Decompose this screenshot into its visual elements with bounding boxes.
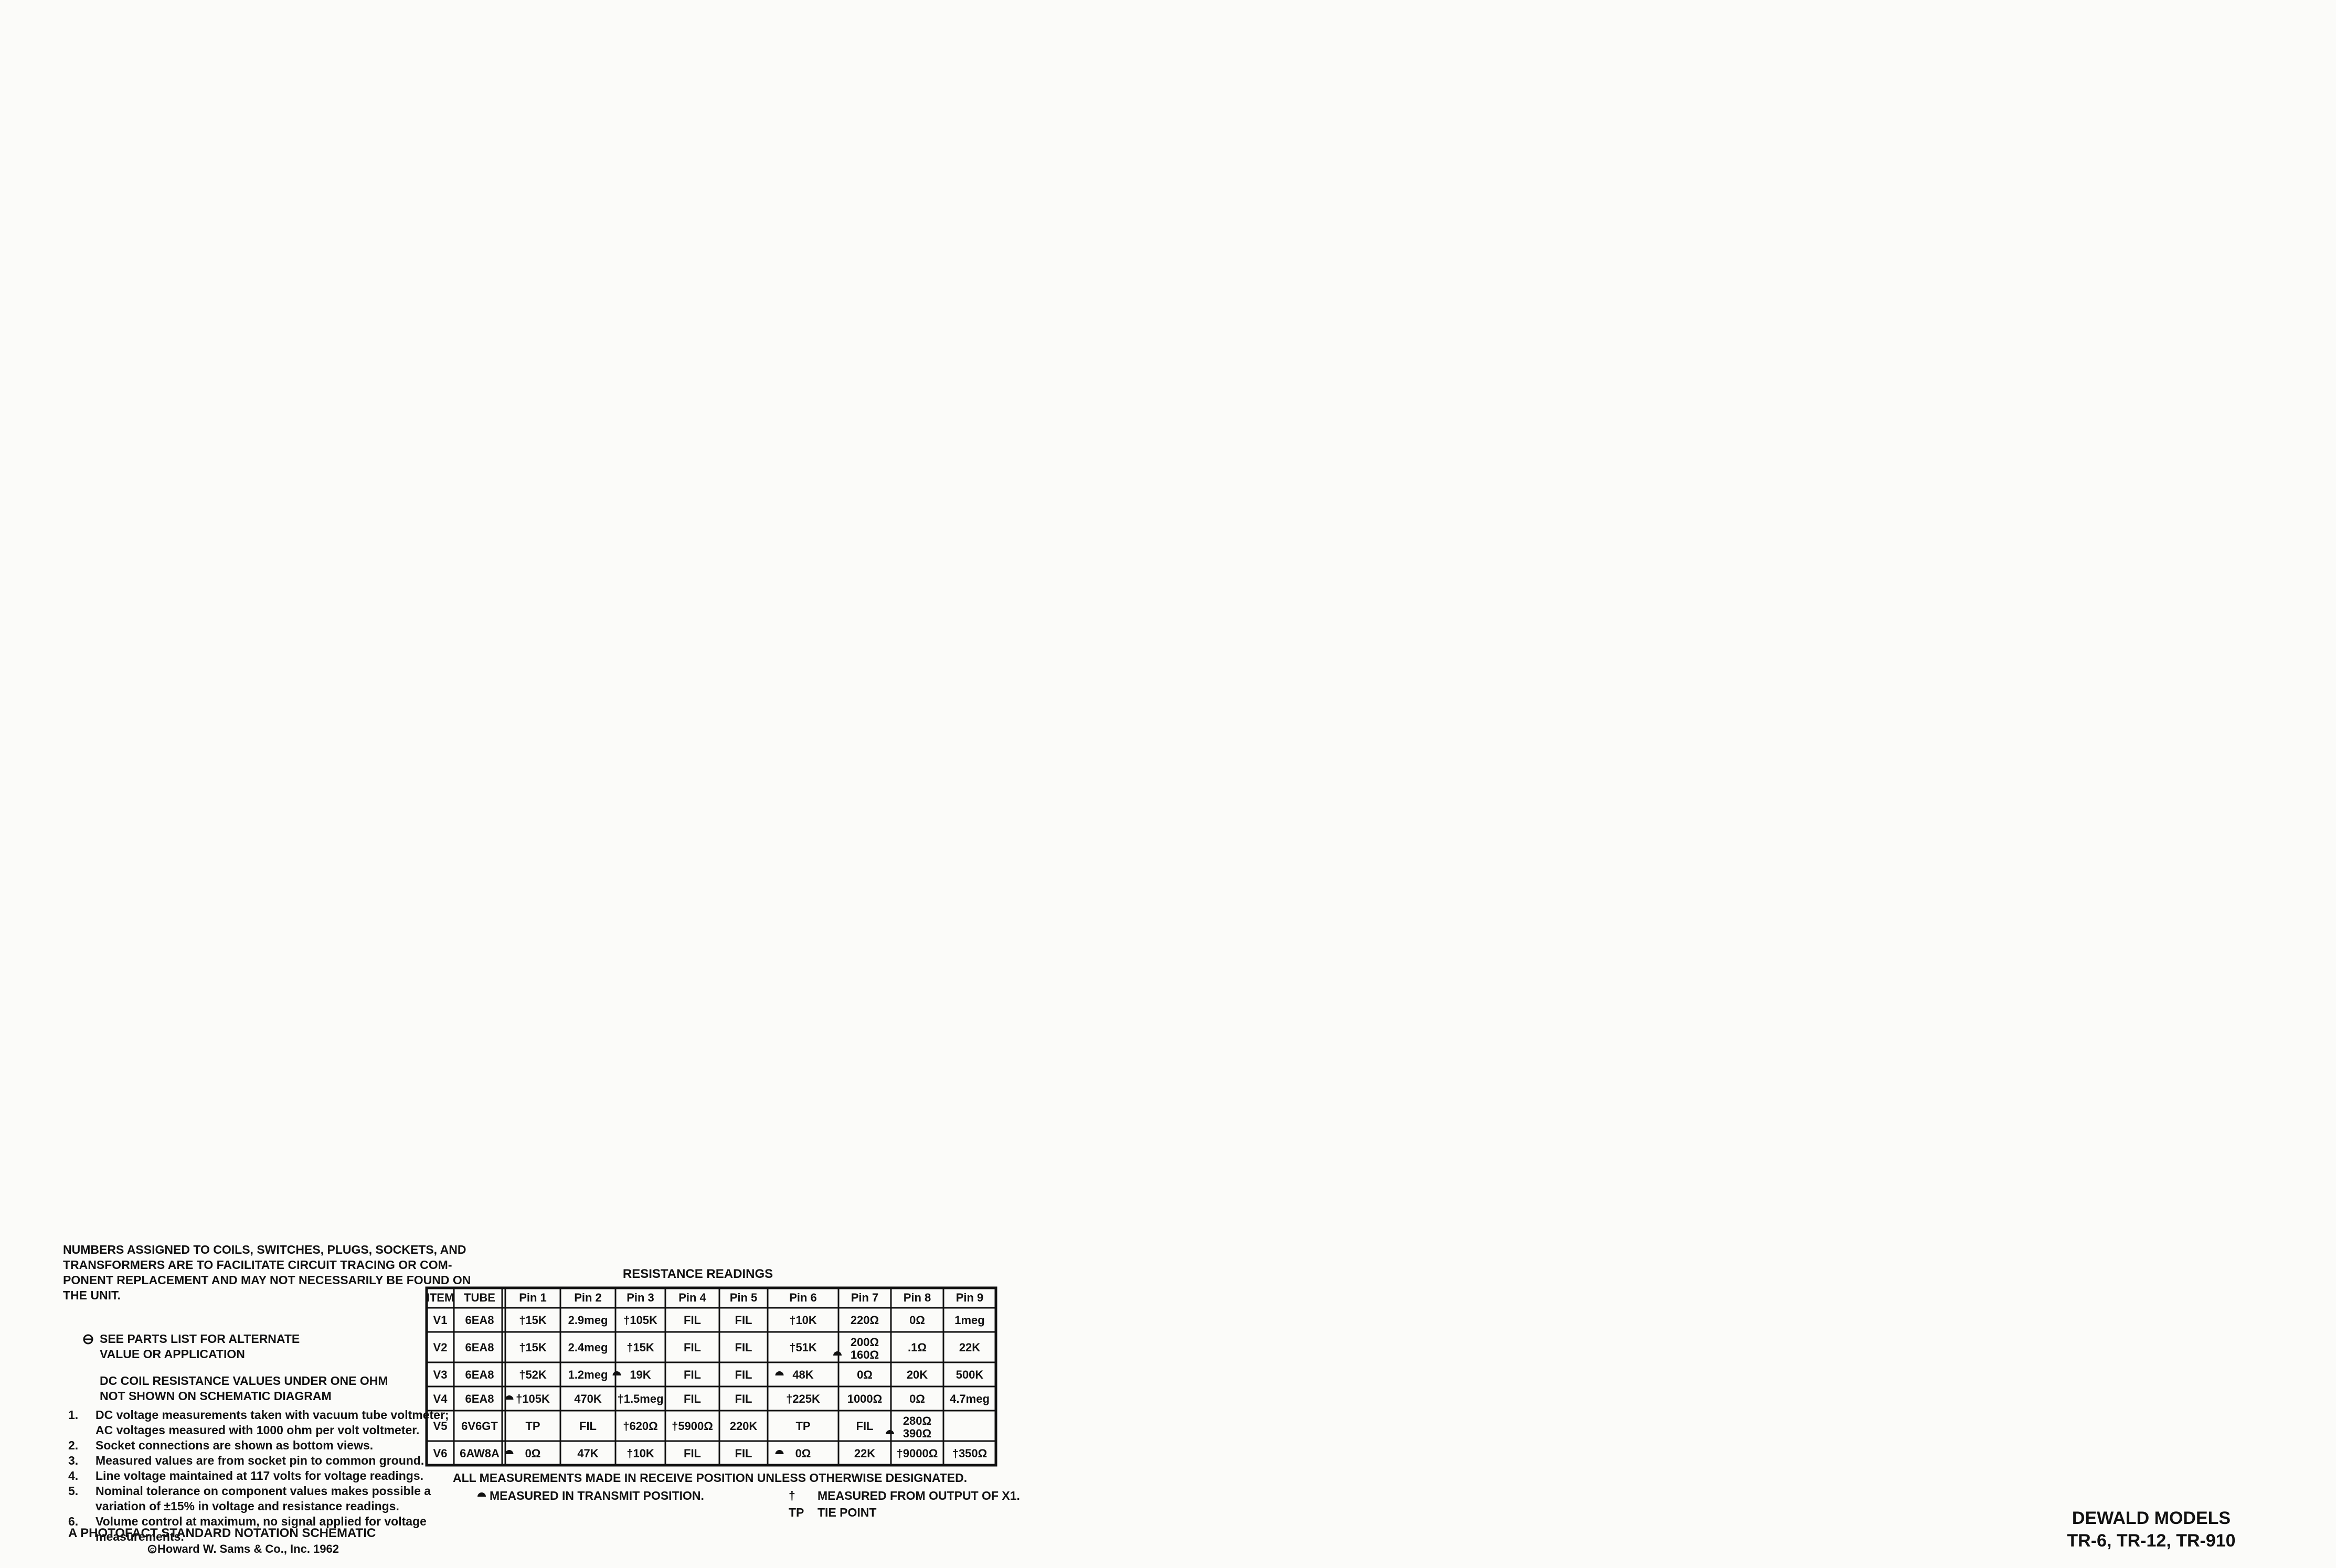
svg-text:Line voltage maintained at 117: Line voltage maintained at 117 volts for… [95, 1469, 423, 1482]
svg-text:†15K: †15K [519, 1314, 547, 1327]
svg-text:FIL: FIL [684, 1447, 701, 1460]
svg-text:6V6GT: 6V6GT [461, 1420, 498, 1433]
svg-text:ALL MEASUREMENTS MADE IN RECEI: ALL MEASUREMENTS MADE IN RECEIVE POSITIO… [453, 1471, 967, 1485]
svg-text:22K: 22K [959, 1341, 980, 1354]
svg-text:†1.5meg: †1.5meg [617, 1392, 663, 1405]
svg-text:Pin 9: Pin 9 [956, 1291, 984, 1304]
svg-text:Pin 2: Pin 2 [574, 1291, 602, 1304]
svg-text:Pin 7: Pin 7 [851, 1291, 879, 1304]
svg-text:DC COIL RESISTANCE VALUES UNDE: DC COIL RESISTANCE VALUES UNDER ONE OHM [100, 1374, 388, 1388]
svg-text:FIL: FIL [579, 1420, 597, 1433]
svg-text:†51K: †51K [789, 1341, 817, 1354]
svg-text:FIL: FIL [684, 1341, 701, 1354]
svg-text:†350Ω: †350Ω [952, 1447, 988, 1460]
svg-text:SEE PARTS LIST FOR ALTERNATE: SEE PARTS LIST FOR ALTERNATE [100, 1332, 300, 1346]
svg-text:TUBE: TUBE [464, 1291, 495, 1304]
svg-text:5.: 5. [68, 1484, 78, 1498]
svg-text:0Ω: 0Ω [909, 1392, 925, 1405]
svg-text:FIL: FIL [735, 1341, 752, 1354]
svg-text:Pin 1: Pin 1 [519, 1291, 547, 1304]
svg-text:1meg: 1meg [954, 1314, 984, 1327]
svg-text:FIL: FIL [735, 1392, 752, 1405]
svg-text:1.2meg: 1.2meg [568, 1368, 608, 1381]
svg-text:C: C [150, 1547, 154, 1553]
svg-text:DC voltage measurements taken: DC voltage measurements taken with vacuu… [95, 1408, 449, 1422]
svg-text:6EA8: 6EA8 [465, 1341, 494, 1354]
svg-text:390Ω: 390Ω [903, 1427, 931, 1440]
svg-text:470K: 470K [574, 1392, 602, 1405]
svg-text:4.: 4. [68, 1469, 78, 1482]
svg-text:FIL: FIL [856, 1420, 874, 1433]
svg-text:V3: V3 [433, 1368, 448, 1381]
svg-text:48K: 48K [792, 1368, 813, 1381]
svg-text:.1Ω: .1Ω [908, 1341, 927, 1354]
svg-text:†15K: †15K [627, 1341, 654, 1354]
svg-text:VALUE OR APPLICATION: VALUE OR APPLICATION [100, 1347, 245, 1361]
svg-text:†52K: †52K [519, 1368, 547, 1381]
svg-text:V2: V2 [433, 1341, 448, 1354]
svg-text:6AW8A: 6AW8A [460, 1447, 500, 1460]
svg-text:Socket connections are shown a: Socket connections are shown as bottom v… [95, 1438, 373, 1452]
svg-text:20K: 20K [907, 1368, 928, 1381]
svg-text:0Ω: 0Ω [795, 1447, 811, 1460]
svg-text:6EA8: 6EA8 [465, 1314, 494, 1327]
svg-text:TR-6, TR-12, TR-910: TR-6, TR-12, TR-910 [2067, 1531, 2235, 1551]
svg-text:†10K: †10K [627, 1447, 654, 1460]
svg-text:THE UNIT.: THE UNIT. [63, 1288, 121, 1302]
svg-text:0Ω: 0Ω [909, 1314, 925, 1327]
svg-text:Nominal tolerance on component: Nominal tolerance on component values ma… [95, 1484, 431, 1498]
svg-text:V4: V4 [433, 1392, 448, 1405]
svg-text:0Ω: 0Ω [857, 1368, 873, 1381]
svg-text:PONENT REPLACEMENT AND MAY NOT: PONENT REPLACEMENT AND MAY NOT NECESSARI… [63, 1273, 471, 1287]
svg-text:†: † [789, 1489, 795, 1502]
svg-text:NUMBERS ASSIGNED TO COILS, SWI: NUMBERS ASSIGNED TO COILS, SWITCHES, PLU… [63, 1243, 466, 1256]
svg-text:0Ω: 0Ω [525, 1447, 541, 1460]
svg-text:†620Ω: †620Ω [623, 1420, 658, 1433]
svg-text:200Ω: 200Ω [851, 1336, 879, 1349]
svg-text:4.7meg: 4.7meg [950, 1392, 990, 1405]
svg-text:47K: 47K [577, 1447, 598, 1460]
svg-text:22K: 22K [854, 1447, 875, 1460]
svg-text:†105K: †105K [516, 1392, 550, 1405]
svg-text:500K: 500K [956, 1368, 984, 1381]
svg-text:1.: 1. [68, 1408, 78, 1422]
svg-text:19K: 19K [630, 1368, 651, 1381]
svg-text:6EA8: 6EA8 [465, 1392, 494, 1405]
svg-text:†15K: †15K [519, 1341, 547, 1354]
svg-text:variation of ±15% in voltage a: variation of ±15% in voltage and resista… [95, 1499, 399, 1513]
svg-text:MEASURED IN TRANSMIT POSITION.: MEASURED IN TRANSMIT POSITION. [490, 1489, 704, 1502]
svg-text:DEWALD MODELS: DEWALD MODELS [2072, 1508, 2231, 1528]
svg-text:†9000Ω: †9000Ω [897, 1447, 938, 1460]
svg-text:3.: 3. [68, 1454, 78, 1467]
svg-text:160Ω: 160Ω [851, 1348, 879, 1361]
svg-text:Howard W. Sams & Co., Inc. 196: Howard W. Sams & Co., Inc. 1962 [157, 1542, 339, 1555]
svg-text:2.9meg: 2.9meg [568, 1314, 608, 1327]
svg-text:†10K: †10K [789, 1314, 817, 1327]
svg-text:220K: 220K [730, 1420, 758, 1433]
svg-text:AC voltages measured with 100: AC voltages measured with 1000 ohm per v… [95, 1423, 419, 1437]
svg-text:1000Ω: 1000Ω [847, 1392, 883, 1405]
svg-text:Pin 8: Pin 8 [904, 1291, 931, 1304]
svg-text:V5: V5 [433, 1420, 448, 1433]
svg-text:†5900Ω: †5900Ω [672, 1420, 713, 1433]
svg-text:FIL: FIL [735, 1368, 752, 1381]
svg-text:†105K: †105K [623, 1314, 657, 1327]
svg-text:TRANSFORMERS ARE TO FACILITATE: TRANSFORMERS ARE TO FACILITATE CIRCUIT T… [63, 1258, 452, 1272]
svg-text:FIL: FIL [684, 1368, 701, 1381]
svg-text:ITEM: ITEM [427, 1291, 454, 1304]
svg-text:2.: 2. [68, 1438, 78, 1452]
svg-text:FIL: FIL [735, 1314, 752, 1327]
svg-text:2.4meg: 2.4meg [568, 1341, 608, 1354]
svg-text:FIL: FIL [684, 1314, 701, 1327]
svg-text:RESISTANCE READINGS: RESISTANCE READINGS [623, 1267, 773, 1281]
svg-text:TP: TP [795, 1420, 810, 1433]
svg-text:280Ω: 280Ω [903, 1414, 931, 1427]
svg-text:FIL: FIL [735, 1447, 752, 1460]
svg-text:Pin 5: Pin 5 [730, 1291, 758, 1304]
svg-text:220Ω: 220Ω [851, 1314, 879, 1327]
svg-text:†225K: †225K [786, 1392, 820, 1405]
svg-text:MEASURED FROM OUTPUT OF X1.: MEASURED FROM OUTPUT OF X1. [817, 1489, 1020, 1502]
svg-text:NOT SHOWN ON SCHEMATIC DIAGRAM: NOT SHOWN ON SCHEMATIC DIAGRAM [100, 1389, 332, 1403]
svg-text:TP: TP [525, 1420, 540, 1433]
svg-text:Measured values are from socke: Measured values are from socket pin to c… [95, 1454, 424, 1467]
svg-text:TIE POINT: TIE POINT [817, 1506, 876, 1519]
svg-text:V1: V1 [433, 1314, 448, 1327]
svg-text:Pin 3: Pin 3 [627, 1291, 654, 1304]
svg-text:V6: V6 [433, 1447, 448, 1460]
svg-text:TP: TP [789, 1506, 804, 1519]
svg-text:6EA8: 6EA8 [465, 1368, 494, 1381]
svg-text:FIL: FIL [684, 1392, 701, 1405]
svg-text:Pin 6: Pin 6 [789, 1291, 817, 1304]
svg-text:Pin 4: Pin 4 [678, 1291, 706, 1304]
svg-text:A PHOTOFACT STANDARD NOTATION: A PHOTOFACT STANDARD NOTATION SCHEMATIC [68, 1526, 376, 1540]
